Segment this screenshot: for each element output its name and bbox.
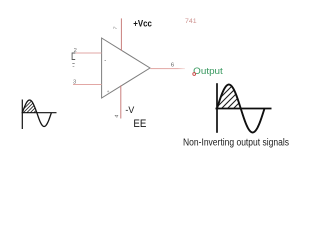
svg-text:+: +	[107, 89, 110, 94]
svg-text:-: -	[104, 58, 106, 64]
svg-text:+Vcc: +Vcc	[133, 18, 152, 29]
svg-text:-V: -V	[125, 105, 134, 115]
svg-text:2: 2	[74, 48, 77, 54]
svg-text:4: 4	[114, 114, 120, 118]
svg-text:Output: Output	[193, 66, 223, 76]
svg-text:3: 3	[73, 79, 76, 85]
svg-text:Non-Inverting output signals: Non-Inverting output signals	[183, 138, 289, 149]
svg-text:741: 741	[185, 18, 197, 25]
svg-text:6: 6	[171, 63, 174, 69]
svg-text:EE: EE	[133, 118, 146, 130]
svg-text:7: 7	[113, 26, 120, 30]
